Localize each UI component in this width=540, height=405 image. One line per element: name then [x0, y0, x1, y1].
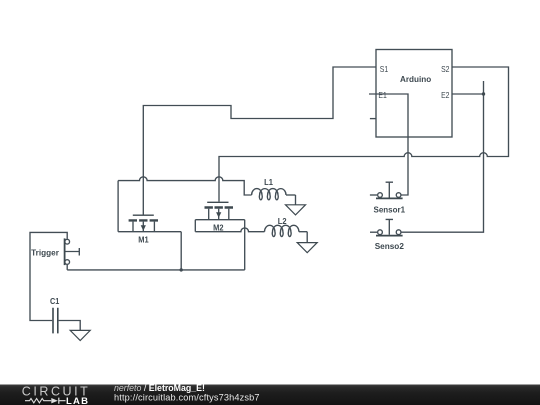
svg-text:E1: E1	[378, 90, 387, 100]
M2 left lead	[208, 209, 210, 220]
wire Trigger top to C1	[30, 232, 67, 320]
switch Trigger (pushbutton)	[31, 238, 79, 265]
wire net E2 vertical to Senso2	[402, 81, 484, 232]
wire L1 to ground	[295, 195, 297, 205]
M2 channel bars	[205, 206, 234, 208]
wire Trigger bottom to net D	[66, 265, 68, 270]
ground (L2)	[297, 243, 317, 253]
svg-text:Arduino: Arduino	[400, 74, 431, 84]
transistor M1	[118, 215, 181, 244]
wire M2 drain drop to net D	[244, 220, 246, 270]
svg-text:S1: S1	[380, 64, 389, 74]
wire M2 source to L2 (hop over M2 drop)	[195, 228, 264, 232]
wire net C: M1 source rail to L1 (hops over M1,M2 gates)	[118, 177, 252, 195]
M2 bottom rail	[195, 219, 244, 221]
svg-text:http://circuitlab.com/cftys73h: http://circuitlab.com/cftys73h4zsb7	[114, 392, 260, 402]
svg-text:L2: L2	[278, 216, 287, 226]
svg-text:LAB: LAB	[66, 396, 89, 405]
wire net E2: E2 pin to junction	[452, 93, 484, 95]
M2 right lead	[228, 209, 230, 220]
wire M1 drain drop to net D	[180, 232, 182, 270]
capacitor C1	[50, 296, 59, 333]
svg-text:L1: L1	[264, 177, 273, 187]
svg-text:C1: C1	[50, 296, 59, 306]
junction dot at E2 node	[482, 92, 485, 95]
M2 body arrow	[218, 209, 220, 220]
wire net D: Trigger bottom to M2 drop	[67, 269, 245, 271]
M1 right lead	[153, 222, 155, 232]
M2 gate bar	[207, 201, 228, 203]
svg-text:Senso2: Senso2	[375, 241, 404, 251]
wire Sensor1 left lead	[370, 194, 377, 196]
M1 body arrow	[142, 222, 144, 232]
wire net C left vertical to M1 rail	[117, 181, 119, 232]
wire C1 right to ground	[59, 321, 81, 331]
switch Senso2 (pushbutton)	[375, 219, 404, 251]
ground (C1)	[70, 330, 90, 340]
svg-text:M2: M2	[213, 222, 224, 232]
svg-text:Sensor1: Sensor1	[374, 205, 406, 215]
M1 gate bar	[133, 214, 154, 216]
wire L2 to ground	[306, 232, 308, 243]
IC U1 Arduino	[376, 50, 452, 138]
inductor L2	[265, 216, 308, 236]
ground (L1)	[286, 205, 306, 215]
svg-text:Trigger: Trigger	[31, 248, 59, 258]
wire Senso2 left lead	[370, 231, 377, 233]
CircuitLab logo	[22, 384, 91, 405]
switch Sensor1 (pushbutton)	[374, 182, 406, 215]
M2 rail left drop	[194, 220, 196, 232]
transistor M2	[195, 202, 244, 232]
svg-text:S2: S2	[441, 64, 450, 74]
svg-text:M1: M1	[138, 234, 149, 244]
wire net B: S2 to M2 gate	[219, 67, 509, 202]
M1 channel bars	[129, 219, 158, 221]
svg-text:E2: E2	[441, 90, 450, 100]
pin stub (unconnected Arduino pin)	[370, 118, 376, 120]
M1 left lead	[132, 222, 134, 232]
M1 bottom rail	[118, 231, 181, 233]
junction dot net D	[180, 268, 183, 271]
inductor L1	[252, 177, 296, 200]
wire net E1: E1 pin down to Sensor1	[369, 94, 408, 195]
wire net A: S1 to M1 gate	[143, 67, 376, 215]
